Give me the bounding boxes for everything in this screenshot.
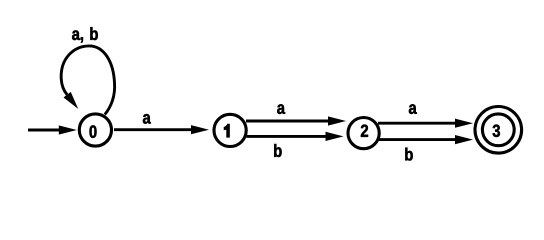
arrowhead: start arrow <box>59 125 77 134</box>
state 0 circle <box>79 114 111 146</box>
state label 2 <box>361 125 368 137</box>
wire: start arrow shaft into state 0 <box>28 129 61 132</box>
wire: self-loop on state 0 <box>61 46 114 115</box>
label a on edge 0 to 1 <box>143 114 151 124</box>
state label 3 <box>493 125 500 137</box>
state label 1 <box>224 124 230 137</box>
arrowhead: edge 1 to 2 bottom <box>326 132 344 141</box>
state 3 inner circle (accepting state) <box>482 114 514 146</box>
wire: edge 1 to 2 bottom shaft <box>247 135 327 138</box>
label "a" of "a, b" on self-loop <box>72 30 80 40</box>
arrowhead: edge 2 to 3 bottom <box>455 135 473 144</box>
arrowhead: self-loop on state 0 <box>63 92 81 112</box>
label comma of "a, b" on self-loop <box>81 37 83 42</box>
state 1 circle <box>214 114 246 146</box>
arrowhead: edge 2 to 3 top <box>455 119 473 128</box>
wire: edge 0 to 1 shaft <box>114 128 192 131</box>
wire: edge 2 to 3 bottom shaft <box>379 138 456 141</box>
label b on edge 1 to 2 bottom <box>274 144 281 157</box>
wire: edge 1 to 2 top shaft <box>246 120 329 123</box>
arrowhead: edge 0 to 1 <box>191 125 209 134</box>
state 2 circle <box>348 118 379 149</box>
arrowhead: edge 1 to 2 top <box>328 116 346 125</box>
label a on edge 1 to 2 top <box>277 104 285 114</box>
label b on edge 2 to 3 bottom <box>405 148 412 161</box>
wire: edge 2 to 3 top shaft <box>378 122 456 125</box>
state 3 outer ring (accepting state) <box>475 107 522 154</box>
label a on edge 2 to 3 top <box>409 104 417 114</box>
label "b" of "a, b" on self-loop <box>90 27 97 40</box>
state label 0 <box>90 125 97 137</box>
